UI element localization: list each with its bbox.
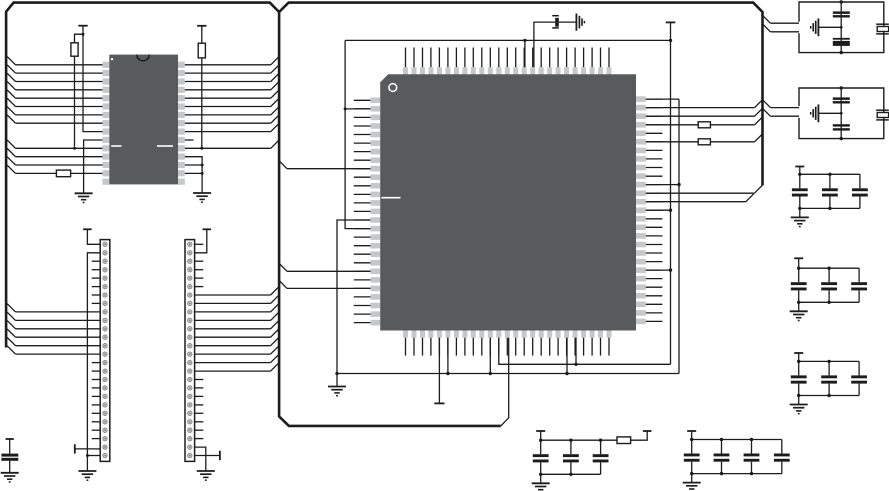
wire pin11 to frame	[16, 147, 103, 149]
ground U2 left	[328, 386, 346, 388]
wire to bus	[646, 184, 679, 186]
capacitor	[751, 440, 753, 454]
wires into crystal box	[763, 100, 771, 108]
center net	[840, 2, 842, 53]
resistor R5	[599, 439, 602, 442]
capacitor Cb	[833, 38, 850, 40]
capacitor Ca	[833, 97, 850, 100]
ground rail bottom	[337, 373, 679, 375]
capacitor	[691, 440, 693, 454]
J1 left stubs	[92, 260, 101, 262]
stub long	[646, 175, 663, 177]
capacitor	[829, 174, 831, 188]
capacitor	[781, 440, 783, 454]
J1 ground rail from pin2	[87, 253, 100, 471]
crystal circuit box	[799, 2, 884, 53]
power stub	[795, 166, 804, 168]
capacitor Ca	[833, 11, 850, 14]
capacitor	[798, 268, 800, 282]
J1 power wire to pin1	[87, 229, 100, 244]
top rail	[799, 360, 859, 362]
power stub J1 bottom side	[74, 444, 76, 453]
QFP U2 right pin pads and stubs	[636, 96, 646, 102]
capacitor	[858, 268, 860, 282]
power stub	[687, 430, 696, 432]
wires into crystal box	[763, 15, 771, 23]
power stub J2	[203, 228, 212, 230]
U1 right bus wires to frame	[185, 64, 271, 66]
resistor R1	[74, 56, 76, 146]
capacitor	[828, 361, 830, 375]
node J1 ground junction	[86, 454, 89, 457]
QFP U2 top pin pads and stubs	[405, 48, 407, 68]
ground inside crystal box	[818, 112, 841, 114]
top rail	[800, 173, 860, 175]
ground	[798, 396, 800, 405]
capacitor	[600, 440, 602, 454]
ferrite bead FB1	[646, 124, 698, 126]
ground bend U1-right	[185, 157, 202, 193]
ground C1	[1, 472, 19, 474]
node R1 bottom junction	[73, 147, 76, 150]
J2 right stubs	[195, 260, 204, 262]
pin drop to rail far	[566, 338, 568, 374]
ground	[798, 302, 800, 311]
capacitor	[828, 268, 830, 282]
resistor R3	[201, 26, 203, 43]
QFP U2 bottom pin pads and stubs	[403, 330, 408, 337]
ground J2	[197, 470, 215, 472]
IC U1 body	[109, 55, 178, 185]
bottom rail	[799, 395, 859, 397]
connector J2 body	[185, 240, 195, 462]
power stub VCC U1-left	[78, 25, 87, 27]
bottom rail	[800, 207, 860, 209]
node rail junction	[335, 372, 338, 375]
node R3 junction	[200, 147, 203, 150]
wire pin13 to frame	[16, 164, 103, 166]
wire right vertical bus	[670, 40, 672, 364]
capacitor Cb	[833, 124, 850, 126]
connector J1 pin circles	[103, 242, 107, 246]
connector J1 body	[100, 240, 110, 462]
top rail	[541, 439, 601, 441]
J1 bus wires to frame	[16, 311, 101, 313]
ferrite bead FB2	[646, 141, 698, 143]
capacitor C2 top	[534, 22, 555, 67]
power stub VCC U1-right	[197, 25, 206, 27]
wire to crystal2 a	[646, 107, 755, 109]
capacitor	[540, 440, 542, 454]
wire	[83, 26, 103, 132]
QFP left bus wires from frame	[287, 168, 371, 170]
J2 ground wire	[195, 447, 206, 471]
power stub J2 bottom side	[195, 455, 220, 457]
second rail bottom	[499, 338, 671, 365]
top rail	[692, 439, 782, 441]
QFP U2 body	[380, 74, 636, 330]
right vertical buses	[646, 98, 679, 100]
wire to frame corner a	[646, 192, 755, 194]
capacitor	[721, 440, 723, 454]
ground line U1-left	[84, 140, 103, 193]
power stub	[794, 257, 803, 259]
wire to frame corner b	[646, 201, 746, 203]
ground	[799, 208, 801, 217]
wire pin12 to frame	[16, 156, 103, 158]
stub J2 pin1	[195, 243, 204, 245]
pin drop to frame bottom	[508, 338, 510, 418]
capacitor	[858, 361, 860, 375]
ground U1-left	[75, 192, 93, 194]
power stub	[536, 430, 545, 432]
node branch	[344, 107, 347, 110]
capacitor	[859, 174, 861, 188]
capacitor C1	[9, 439, 11, 454]
ground	[691, 474, 693, 483]
ground drop QFP left	[337, 220, 371, 374]
QFP U2 left pin pads and stubs	[371, 98, 381, 104]
crystal X	[876, 109, 889, 111]
crystal X	[876, 23, 889, 25]
left sheet frame border	[6, 3, 279, 348]
resistor R2 in series	[16, 172, 57, 174]
IC U1 left pin pads	[103, 62, 110, 68]
wire	[185, 172, 202, 174]
bottom rail	[692, 473, 782, 475]
ground J1	[78, 470, 96, 472]
power stub C1	[6, 438, 14, 440]
wire pin drop	[524, 40, 526, 67]
wire J2 pin2 to power	[195, 229, 207, 253]
U1 left bus wires to frame	[16, 64, 103, 66]
wire to crystal2 b	[646, 115, 755, 117]
wire pin26 to frame	[185, 147, 271, 149]
bottom rail	[799, 301, 859, 303]
wire	[185, 164, 202, 166]
IC U1 right pin pads	[178, 62, 185, 68]
capacitor	[798, 361, 800, 375]
pin drop to rail2 far	[575, 338, 577, 365]
ground inside crystal box	[818, 26, 841, 28]
connector J2 pin circles	[188, 242, 192, 246]
ground	[540, 474, 542, 483]
ground top rotated	[575, 14, 577, 31]
wire J1 last pin	[87, 455, 100, 457]
bottom rail	[541, 473, 601, 475]
top rail	[799, 267, 859, 269]
crystal circuit box	[799, 88, 884, 139]
pin drop with terminator	[438, 338, 440, 404]
node R1/VCC junction	[82, 33, 85, 36]
power stub top net	[666, 21, 676, 23]
capacitor	[570, 440, 572, 454]
pin drop to rail	[447, 338, 449, 374]
wire left drop to pin	[345, 40, 370, 228]
ground U1-right	[193, 192, 211, 194]
power stub	[794, 352, 803, 354]
wire to bus lower	[646, 269, 671, 271]
right sheet frame border	[501, 418, 509, 426]
power stub J1	[83, 228, 92, 230]
stub pin27	[185, 139, 194, 141]
J2 bus wires to frame	[195, 294, 271, 296]
capacitor	[799, 174, 801, 188]
center net	[840, 88, 842, 139]
pin drop to rail	[489, 338, 491, 374]
wire to bus	[646, 209, 671, 211]
wire top net	[345, 39, 670, 41]
